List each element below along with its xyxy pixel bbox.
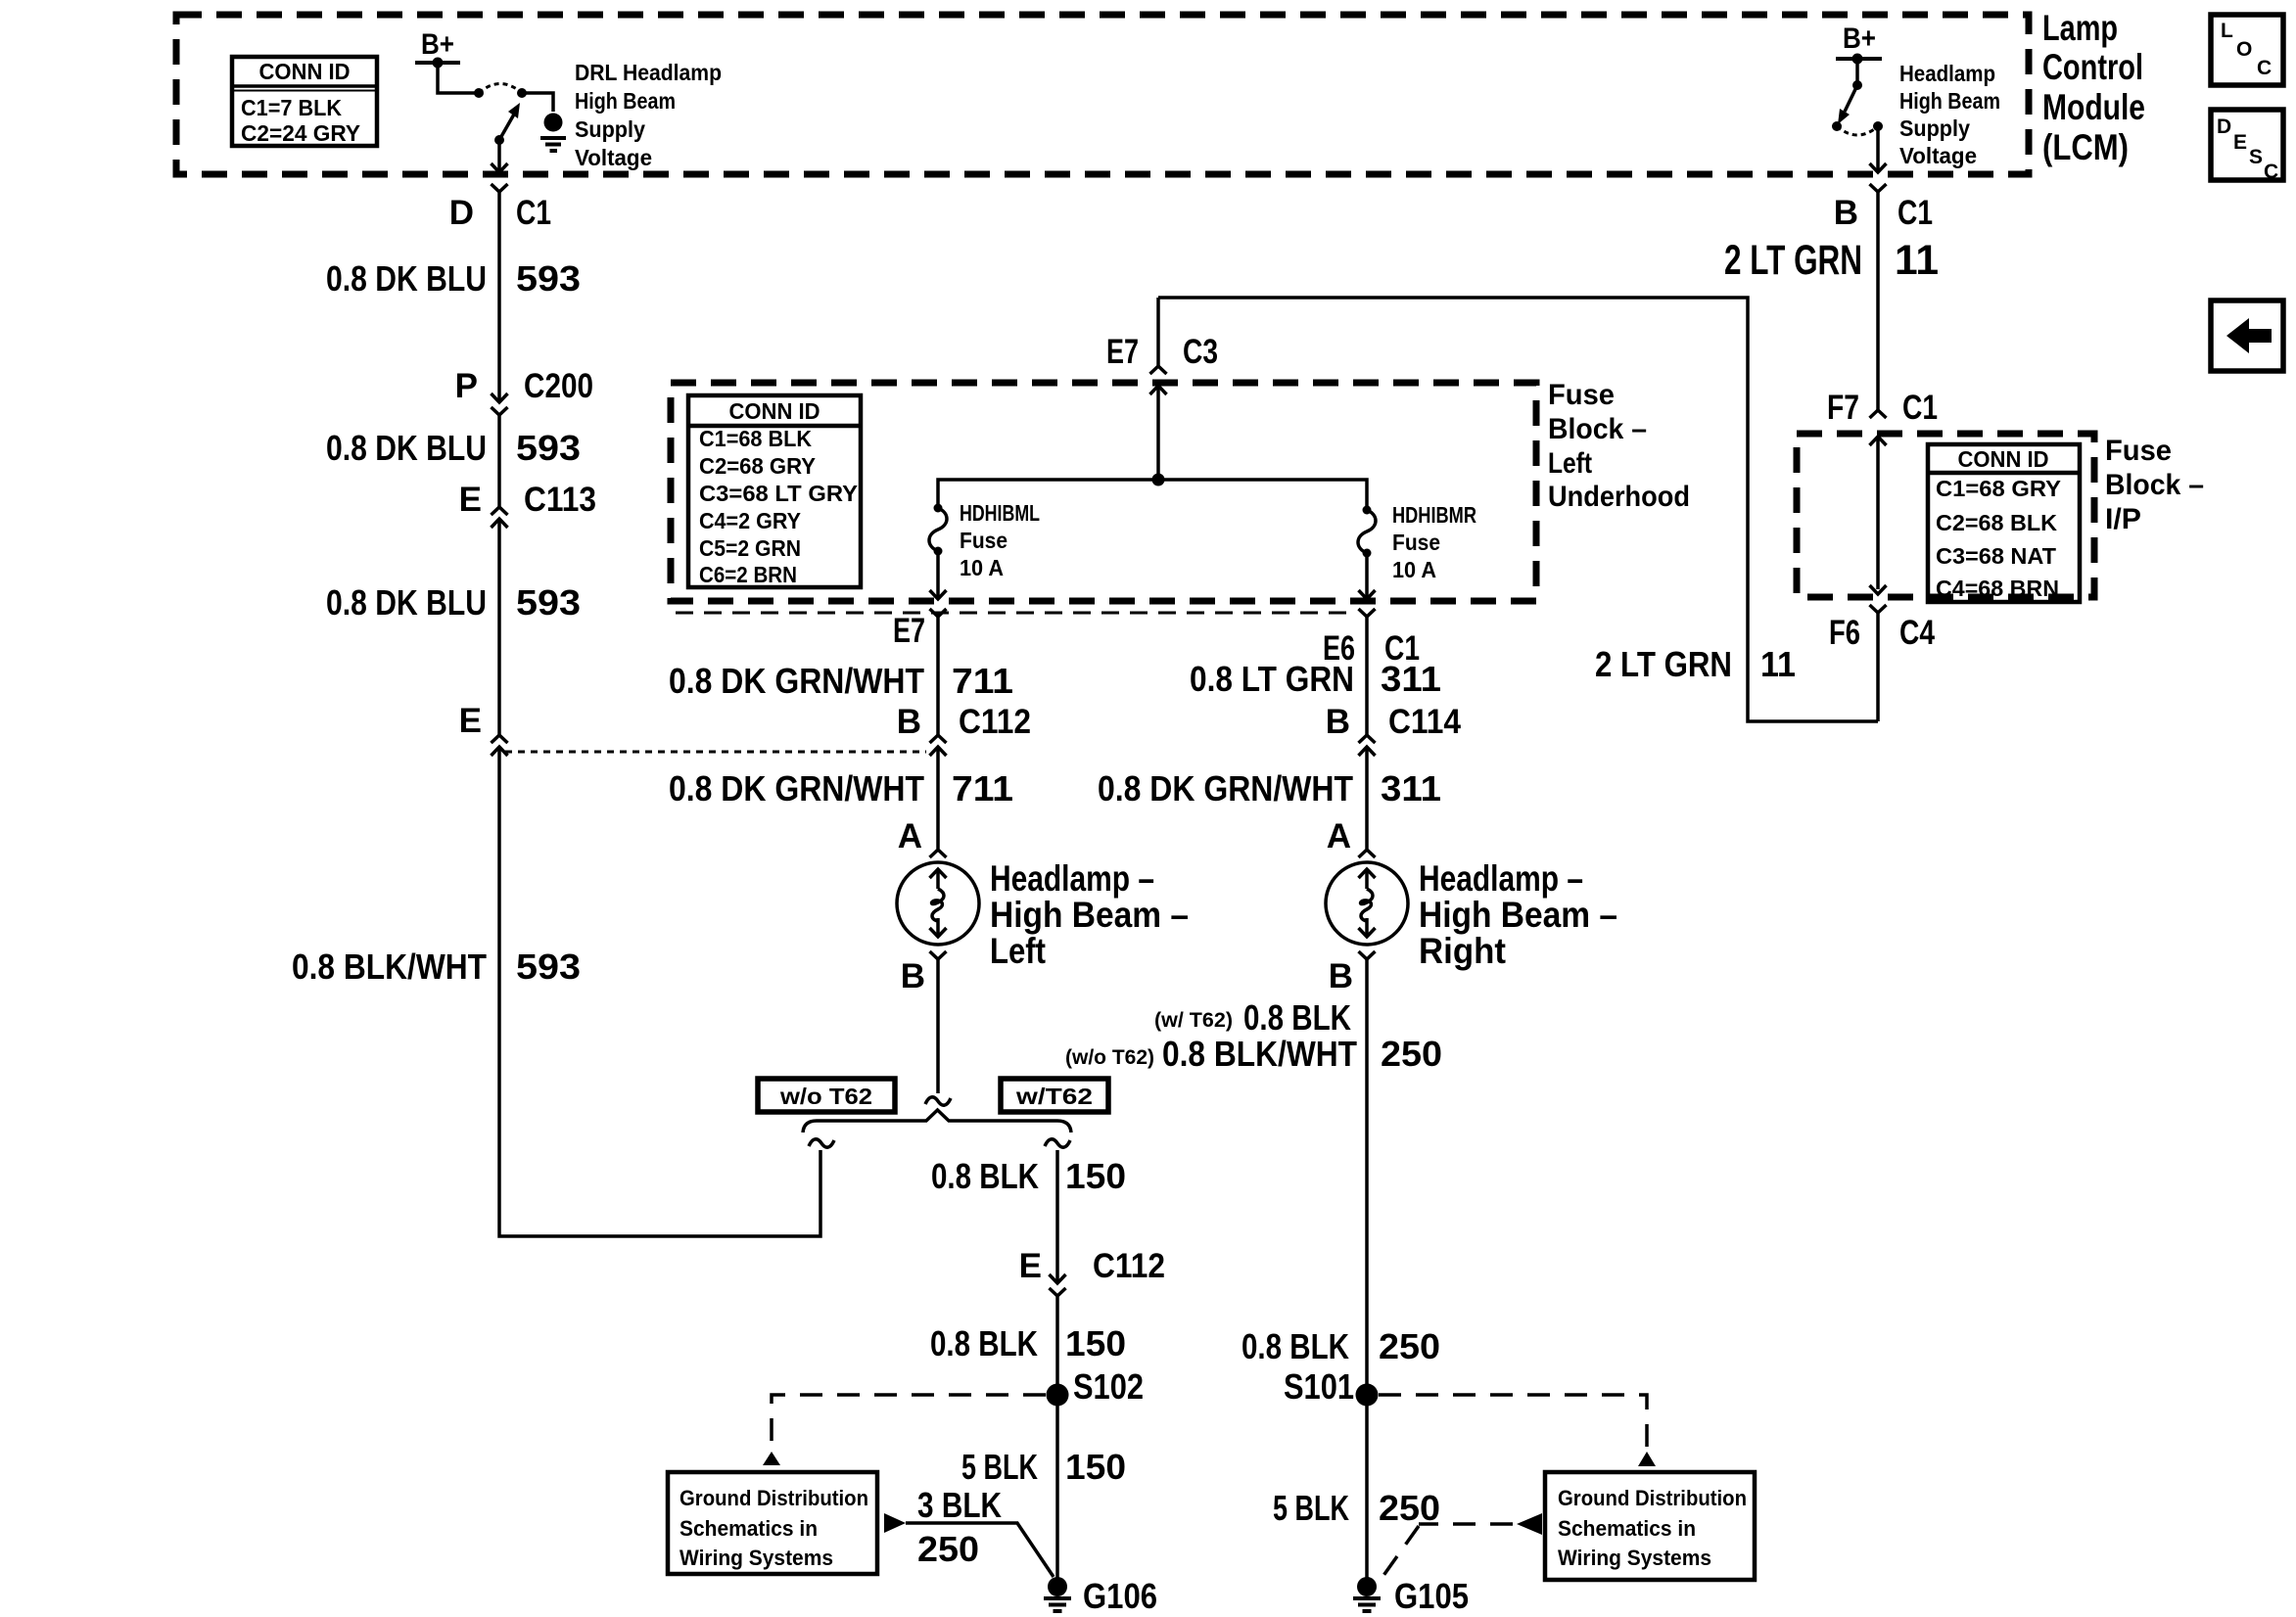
svg-text:C2=68 GRY: C2=68 GRY [699,453,816,479]
svg-text:L: L [2221,20,2233,42]
svg-text:E: E [2233,131,2247,154]
label 3 BLK 250 [917,1485,1002,1569]
svg-text:C114: C114 [1388,703,1461,741]
svg-text:0.8 DK BLU: 0.8 DK BLU [326,582,487,623]
svg-text:I/P: I/P [2105,503,2141,535]
connector cavity E7 (left fuse out) [893,609,947,650]
wire 0.8 LT GRN 311 [1365,617,1369,735]
label 0.8 DK GRN/WHT 311 [1098,768,1441,808]
svg-text:(w/o T62): (w/o T62) [1065,1046,1154,1069]
label (w/o T62) 0.8 BLK/WHT 250 [1065,1034,1442,1074]
svg-text:(w/ T62): (w/ T62) [1154,1009,1233,1032]
label: Headlamp - High Beam - Left [990,858,1189,971]
svg-text:B: B [1834,194,1858,232]
svg-text:C3=68 LT GRY: C3=68 LT GRY [699,481,858,506]
fuse HDHIBML 10A [929,504,947,556]
svg-text:Headlamp –: Headlamp – [1419,858,1583,899]
svg-text:E: E [459,702,482,740]
connector C1 cavity F7 [1827,389,1938,445]
svg-text:Voltage: Voltage [575,145,652,170]
wire through I/P block [1870,437,1887,594]
svg-text:C3=68 NAT: C3=68 NAT [1936,543,2056,569]
svg-text:w/T62: w/T62 [1015,1084,1093,1109]
label: Fuse Block - I/P [2105,435,2204,535]
svg-text:Fuse: Fuse [2105,435,2172,467]
svg-text:Right: Right [1419,931,1506,971]
headlamp right pin B [1329,951,1376,995]
wire: switch output down to LCM edge [492,140,508,172]
splice S102 [1047,1366,1145,1407]
wire 0.8 DK BLU 593 (mid) [497,415,501,507]
dashed reference to G105 [1382,1513,1542,1577]
svg-text:250: 250 [1381,1034,1442,1074]
B+ terminal right [1836,23,1882,65]
svg-text:O: O [2236,38,2252,61]
CONN ID table (I/P) [1928,444,2080,602]
connector C113 pin E [459,481,596,528]
svg-text:Ground Distribution: Ground Distribution [1558,1486,1747,1510]
svg-text:C200: C200 [524,367,593,405]
svg-text:Control: Control [2042,47,2143,87]
svg-text:G106: G106 [1083,1576,1157,1616]
Ground Distribution box (right) [1545,1472,1755,1580]
svg-text:C3: C3 [1183,333,1218,371]
svg-text:0.8 LT GRN: 0.8 LT GRN [1190,659,1354,699]
svg-text:0.8 BLK/WHT: 0.8 BLK/WHT [1162,1034,1357,1074]
svg-text:593: 593 [516,258,581,299]
wire 0.8 DK GRN/WHT 711 (above C112) [936,617,940,735]
ground G106 [1044,1576,1157,1616]
wire 0.8 DK GRN/WHT 711 (below C112) [936,747,940,849]
feed wire inside fuse block [1156,386,1160,480]
svg-text:0.8 DK GRN/WHT: 0.8 DK GRN/WHT [1098,768,1353,808]
svg-text:0.8 DK BLU: 0.8 DK BLU [326,428,487,468]
wire 3 BLK 250 from box [884,1513,1054,1577]
label 2 LT GRN 11 (top) [1724,237,1939,284]
svg-text:Module: Module [2042,87,2145,127]
option brace [803,1110,1071,1132]
svg-text:Lamp: Lamp [2042,8,2118,48]
svg-text:(LCM): (LCM) [2042,127,2129,167]
svg-text:P: P [455,367,478,405]
svg-text:E7: E7 [893,612,925,650]
svg-text:Headlamp –: Headlamp – [990,858,1154,899]
wire 0.8 DK GRN/WHT 311 [1365,747,1369,849]
svg-text:High Beam –: High Beam – [990,895,1189,935]
connector C4 cavity F6 [1829,605,1935,652]
svg-text:0.8 BLK: 0.8 BLK [1243,997,1351,1038]
svg-text:Schematics in: Schematics in [679,1516,818,1541]
svg-text:0.8 BLK: 0.8 BLK [931,1156,1039,1196]
headlamp right pin A [1327,817,1376,857]
svg-text:Supply: Supply [575,116,645,142]
svg-text:C2=24 GRY: C2=24 GRY [241,120,360,146]
svg-text:HDHIBMR: HDHIBMR [1392,502,1476,528]
svg-text:B+: B+ [421,28,454,61]
wire 0.8 BLK 150 (w/T62 branch) [1055,1150,1059,1283]
CONN ID table (LCM) [232,57,377,146]
svg-text:3 BLK: 3 BLK [917,1485,1002,1525]
svg-text:C1: C1 [1902,389,1938,427]
svg-text:F6: F6 [1829,614,1860,652]
svg-text:S: S [2249,146,2263,168]
svg-text:E: E [1019,1247,1042,1285]
label 5 BLK 150 [961,1447,1126,1487]
label: Headlamp High Beam Supply Voltage [1899,61,2000,168]
label 5 BLK 250 [1273,1488,1440,1528]
svg-text:Block –: Block – [2105,469,2204,501]
label: DRL Headlamp High Beam Supply Voltage [575,60,722,170]
Lamp Control Module dashed box [176,15,2029,174]
svg-text:High Beam: High Beam [1899,88,2000,114]
label: Lamp Control Module (LCM) [2042,8,2145,167]
bus wire to both fuses [938,480,1367,508]
svg-text:C4=2 GRY: C4=2 GRY [699,508,801,533]
connector C200 pin P [455,367,593,415]
svg-text:High Beam –: High Beam – [1419,895,1617,935]
label 0.8 DK BLU 593 [326,428,581,468]
label 2 LT GRN 11 (lower) [1595,644,1796,684]
svg-text:2 LT GRN: 2 LT GRN [1724,237,1862,284]
label 0.8 LT GRN 311 [1190,659,1441,699]
label 0.8 DK BLU 593 [326,258,581,299]
svg-text:11: 11 [1895,237,1939,284]
wire below right bulb to S101 [1365,959,1369,1580]
svg-text:w/o T62: w/o T62 [779,1084,872,1109]
headlamp left pin B [901,951,947,995]
dashed connector line C112 [505,751,926,754]
splice S101 [1284,1366,1379,1407]
label 0.8 BLK 250 (above S101) [1242,1326,1440,1366]
svg-text:F7: F7 [1827,389,1859,427]
option box w/o T62 [758,1079,895,1112]
svg-text:Left: Left [1548,447,1592,480]
svg-text:CONN ID: CONN ID [259,59,351,84]
junction node [1152,474,1165,486]
svg-text:C2=68 BLK: C2=68 BLK [1936,510,2057,535]
svg-text:Fuse: Fuse [1392,530,1440,555]
svg-text:593: 593 [516,947,581,987]
break tilde w/o T62 branch [809,1139,834,1147]
top feed wire from fuse block I/P [1158,298,1878,721]
wire from B+ to switch contact [438,63,475,93]
break tilde bulb low side [925,1097,951,1105]
svg-text:250: 250 [1379,1488,1440,1528]
svg-text:Underhood: Underhood [1548,481,1690,513]
svg-text:0.8 DK GRN/WHT: 0.8 DK GRN/WHT [669,661,924,701]
DESC icon [2211,110,2283,183]
svg-text:C112: C112 [1093,1247,1165,1285]
dashed connector row line (E7/E6) [676,612,1356,615]
svg-text:250: 250 [917,1529,979,1569]
wire LCM B/C1 down [1834,184,1933,410]
svg-text:150: 150 [1065,1323,1126,1363]
label: Headlamp - High Beam - Right [1419,858,1617,971]
wire below left fuse [930,551,947,599]
svg-text:HDHIBML: HDHIBML [960,500,1040,526]
Fuse Block Left Underhood dashed box [671,383,1536,601]
svg-text:150: 150 [1065,1447,1126,1487]
break tilde w/T62 branch [1045,1139,1070,1147]
svg-text:C1=68 BLK: C1=68 BLK [699,426,812,451]
svg-text:5 BLK: 5 BLK [1273,1488,1349,1528]
svg-text:711: 711 [952,661,1013,701]
svg-text:DRL Headlamp: DRL Headlamp [575,60,722,85]
svg-text:593: 593 [516,582,581,623]
svg-text:Schematics in: Schematics in [1558,1516,1696,1541]
svg-text:B: B [901,957,925,995]
svg-text:B+: B+ [1843,23,1876,55]
connector C114 pin B [1326,703,1462,756]
label HDHIBMR Fuse 10 A [1392,502,1476,582]
svg-text:S102: S102 [1073,1366,1144,1407]
back-arrow icon [2211,300,2283,371]
svg-text:C6=2 BRN: C6=2 BRN [699,562,797,587]
svg-text:Block –: Block – [1548,413,1647,445]
svg-text:High Beam: High Beam [575,88,676,114]
svg-text:10 A: 10 A [1392,557,1436,582]
svg-text:311: 311 [1381,768,1441,808]
svg-text:C5=2 GRN: C5=2 GRN [699,535,801,561]
wire 0.8 BLK 150 to S102 [1055,1296,1059,1579]
svg-text:150: 150 [1065,1156,1126,1196]
wire below right fuse [1359,553,1376,599]
svg-text:C1=68 GRY: C1=68 GRY [1936,476,2061,501]
svg-text:Left: Left [990,931,1046,971]
headlamp left pin A [898,817,947,857]
CONN ID table (underhood) [688,395,861,587]
svg-text:A: A [898,817,922,855]
headlamp high beam right bulb [1326,862,1408,945]
Fuse Block I/P dashed box [1797,434,2094,597]
svg-text:C1: C1 [516,194,551,232]
svg-text:711: 711 [952,768,1013,808]
svg-text:C113: C113 [524,481,596,519]
svg-text:Wiring Systems: Wiring Systems [679,1546,833,1570]
connector C112 pin E (left wire) [459,702,508,756]
wire: right switch output to LCM edge [1870,126,1887,172]
connector C112 pin B [897,703,1031,756]
svg-text:0.8 DK BLU: 0.8 DK BLU [326,258,487,299]
svg-text:C: C [2264,161,2278,183]
svg-text:B: B [1326,703,1350,741]
dashed reference from S101 [1379,1395,1656,1466]
LOC icon [2211,15,2283,85]
label 0.8 DK GRN/WHT 711 [669,661,1013,701]
svg-text:250: 250 [1379,1326,1440,1366]
svg-text:CONN ID: CONN ID [729,398,820,424]
svg-text:E7: E7 [1106,333,1139,371]
svg-text:C112: C112 [959,703,1031,741]
fuse HDHIBMR 10A [1358,506,1376,558]
wire 0.8 DK BLU 593 (top) [497,192,501,401]
wire below F6/C4 [1876,613,1880,721]
svg-text:Ground Distribution: Ground Distribution [679,1486,868,1510]
svg-text:0.8 BLK: 0.8 BLK [1242,1326,1349,1366]
label HDHIBML Fuse 10 A [960,500,1040,580]
svg-text:B: B [1329,957,1353,995]
svg-text:C1: C1 [1898,194,1933,232]
svg-text:C1=7 BLK: C1=7 BLK [241,95,342,120]
svg-text:CONN ID: CONN ID [1958,446,2049,472]
coil ground dot (LCM left) [540,114,566,152]
svg-text:0.8 BLK/WHT: 0.8 BLK/WHT [292,947,487,987]
svg-text:593: 593 [516,428,581,468]
svg-text:D: D [2217,115,2231,138]
svg-text:S101: S101 [1284,1366,1354,1407]
svg-text:Fuse: Fuse [1548,379,1615,411]
svg-text:C4: C4 [1899,614,1935,652]
svg-text:E: E [459,481,482,519]
label 0.8 DK GRN/WHT 711 [669,768,1013,808]
B+ terminal left [415,28,460,69]
connector C1 pin D (LCM exit) [449,184,551,232]
label 0.8 DK BLU 593 [326,582,581,623]
svg-text:5 BLK: 5 BLK [961,1447,1038,1487]
connector C3 cavity E7 [1106,298,1218,394]
label 0.8 BLK 150 [931,1156,1126,1196]
svg-text:11: 11 [1760,644,1796,684]
dashed reference from S102 [763,1395,1046,1465]
svg-text:311: 311 [1381,659,1441,699]
wire below left bulb [936,959,940,1093]
label 0.8 BLK 150 [930,1323,1126,1363]
svg-text:Wiring Systems: Wiring Systems [1558,1546,1711,1570]
svg-text:D: D [449,194,474,232]
ground G105 [1353,1576,1469,1616]
svg-text:G105: G105 [1394,1576,1469,1616]
svg-text:Headlamp: Headlamp [1899,61,1995,86]
headlamp high beam switch (LCM internal right) [1832,59,1883,135]
svg-text:Fuse: Fuse [960,528,1007,553]
svg-text:Voltage: Voltage [1899,143,1977,168]
svg-text:A: A [1327,817,1351,855]
svg-text:0.8 DK GRN/WHT: 0.8 DK GRN/WHT [669,768,924,808]
svg-text:C4=68 BRN: C4=68 BRN [1936,576,2059,601]
option box w/T62 [1001,1079,1108,1112]
headlamp high beam left bulb [897,862,979,945]
label 0.8 BLK/WHT 593 [292,947,581,987]
connector cavity E6 / C1 (right fuse out) [1323,609,1420,668]
wire 0.8 BLK/WHT 593 [499,747,820,1236]
svg-text:B: B [897,703,921,741]
svg-text:0.8 BLK: 0.8 BLK [930,1323,1038,1363]
Ground Distribution box (left) [668,1472,877,1574]
svg-text:Supply: Supply [1899,115,1970,141]
svg-text:C: C [2257,57,2272,79]
connector C112 pin E (ground path) [1019,1247,1165,1296]
svg-text:2 LT GRN: 2 LT GRN [1595,644,1732,684]
label (w/ T62) 0.8 BLK [1154,997,1351,1038]
DRL switch (LCM internal) [474,84,553,146]
wire 0.8 DK BLU 593 (lower) [497,519,501,735]
svg-text:10 A: 10 A [960,555,1004,580]
label: Fuse Block - Left Underhood [1548,379,1690,513]
